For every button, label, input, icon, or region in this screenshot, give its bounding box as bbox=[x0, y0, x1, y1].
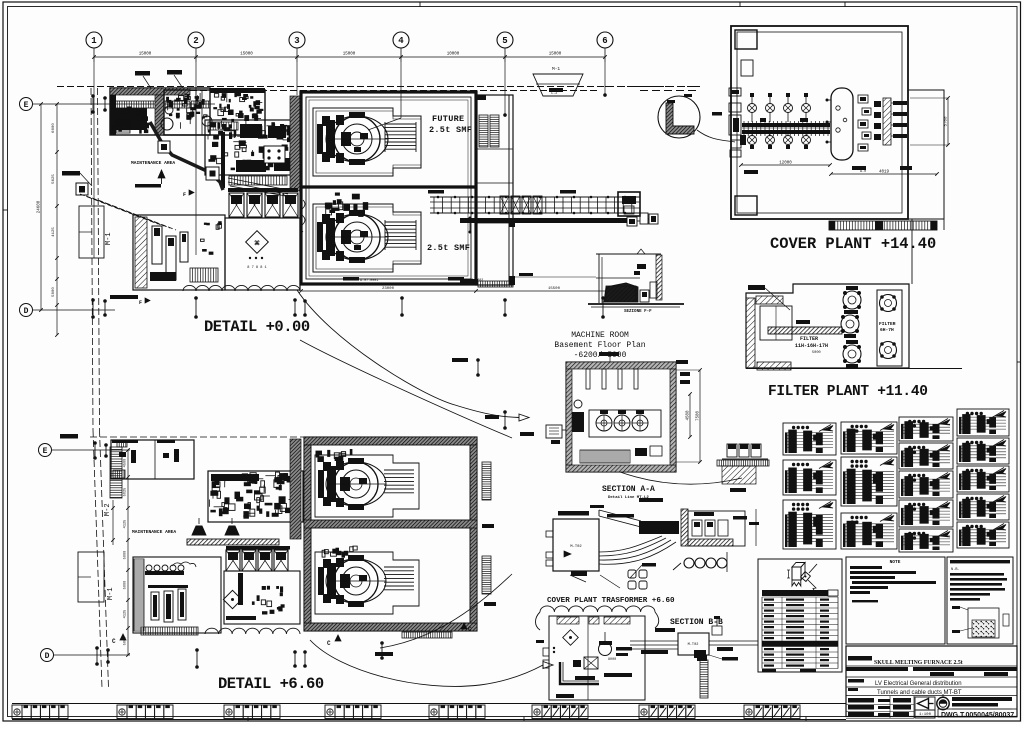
svg-text:FILTER: FILTER bbox=[800, 336, 818, 342]
cover plant tank capsule bbox=[831, 88, 853, 160]
conveyor small flags bbox=[428, 190, 444, 194]
row line E bbox=[33, 103, 215, 105]
plan DETAIL +0.00 boundary dashed line bbox=[57, 86, 700, 88]
title block logo arrow bbox=[915, 697, 935, 710]
section B-B label small bbox=[722, 657, 738, 661]
svg-text:4: 4 bbox=[398, 36, 404, 46]
central hall texture bbox=[282, 130, 286, 135]
conduit panel title bbox=[950, 560, 1010, 563]
lower dumbbells D row bbox=[96, 648, 98, 664]
cover plant corner square bottom-left bbox=[735, 196, 757, 215]
filter plant right room bbox=[877, 290, 902, 366]
grid line 1 vertical bbox=[93, 62, 95, 258]
transformer building bbox=[549, 616, 645, 700]
svg-text:COVER PLANT TRASFORMER +6.60: COVER PLANT TRASFORMER +6.60 bbox=[547, 597, 675, 605]
lower furnace machinery 1 bbox=[339, 453, 346, 456]
schedule blocks column 3 bbox=[899, 417, 953, 441]
cover plant left machinery column bbox=[729, 88, 741, 96]
lower dim line 2 bbox=[112, 500, 114, 545]
svg-text:4125: 4125 bbox=[124, 610, 128, 619]
lower plan dashed top boundary bbox=[90, 436, 310, 438]
lower-left pump circle row bbox=[145, 571, 184, 575]
lower central machinery bbox=[208, 471, 303, 522]
room block A comb band bbox=[110, 101, 210, 108]
section A-A duct squares bbox=[628, 570, 636, 578]
section A-A platform slope bbox=[599, 510, 641, 521]
svg-text:15000: 15000 bbox=[549, 53, 562, 57]
revision strip group 2 bbox=[117, 705, 127, 719]
filter plant bottom hatch strip bbox=[757, 362, 791, 370]
schedule block B1 bbox=[841, 422, 897, 454]
grid bubble 4 bbox=[393, 32, 409, 48]
detail circle wedge bbox=[666, 103, 694, 134]
room block A hatched column bbox=[155, 95, 164, 135]
svg-text:4500: 4500 bbox=[124, 459, 128, 468]
svg-text:Tunnels and cable ducts MT-BT: Tunnels and cable ducts MT-BT bbox=[877, 690, 962, 696]
section B-B box bbox=[678, 633, 709, 655]
comb above transformer row bbox=[229, 176, 287, 185]
svg-text:M-1: M-1 bbox=[107, 587, 115, 600]
svg-text:10000: 10000 bbox=[447, 53, 460, 57]
machine room platform bbox=[589, 410, 661, 437]
conveyor X boxes bbox=[500, 196, 509, 214]
machine room pumps bbox=[596, 415, 612, 431]
vertical dimension chain bbox=[56, 104, 58, 335]
svg-text:24600: 24600 bbox=[38, 200, 42, 213]
svg-text:DETAIL +6.60: DETAIL +6.60 bbox=[218, 675, 324, 693]
revision strip group 6 bbox=[532, 705, 542, 719]
conveyor ticks bbox=[433, 197, 435, 213]
cover plant pump row 2 bbox=[748, 136, 757, 145]
right wing bottom hatch bbox=[478, 281, 513, 287]
svg-text:FILTER PLANT +11.40: FILTER PLANT +11.40 bbox=[768, 384, 928, 400]
lower plan row bubble E bbox=[39, 444, 52, 457]
sezione F-F generator bbox=[604, 283, 638, 302]
lower row line E bbox=[52, 449, 130, 451]
future furnace platform outline bbox=[313, 108, 421, 176]
svg-text:8000: 8000 bbox=[608, 658, 616, 662]
svg-text:F: F bbox=[183, 192, 186, 198]
svg-text:5: 5 bbox=[502, 36, 507, 46]
lower furnace platform 2 bbox=[315, 552, 419, 614]
filter plant room top-left bbox=[760, 306, 792, 340]
transformer row units bbox=[228, 188, 298, 192]
cable table block bbox=[758, 559, 842, 672]
lower row line D bbox=[53, 654, 130, 656]
svg-text:4125: 4125 bbox=[52, 227, 56, 237]
svg-text:12000: 12000 bbox=[779, 162, 792, 166]
furnace unit F2 bbox=[317, 210, 416, 263]
transformer mid cluster bbox=[584, 657, 598, 669]
svg-text:D: D bbox=[45, 652, 50, 661]
cover plant manifold bars bbox=[742, 123, 830, 127]
section A-A black slab bbox=[639, 521, 679, 534]
central hall vertical black bar bbox=[221, 132, 225, 188]
svg-text:M-1: M-1 bbox=[552, 66, 560, 72]
svg-text:4500: 4500 bbox=[687, 410, 691, 421]
transformer pipe bbox=[560, 662, 599, 684]
lower dumbbells E row bbox=[94, 443, 96, 458]
svg-text:FUTURE: FUTURE bbox=[432, 114, 464, 124]
svg-text:D: D bbox=[24, 307, 29, 316]
dumbbell markers row E bbox=[92, 96, 94, 112]
svg-text:C: C bbox=[112, 638, 116, 645]
conveyor rails bbox=[430, 196, 640, 198]
svg-text:FILTER: FILTER bbox=[879, 321, 896, 327]
svg-text:C-2: C-2 bbox=[551, 92, 557, 96]
F section marker bottom bbox=[110, 295, 138, 299]
lower dim chain bbox=[127, 450, 129, 655]
title block row SKULL MELTING FURNACE bbox=[848, 656, 872, 661]
conveyor lower black bar bbox=[460, 218, 627, 223]
label flags above rooms bbox=[135, 71, 150, 76]
row bubble D bbox=[20, 304, 33, 317]
svg-text:5625: 5625 bbox=[52, 174, 56, 184]
lower-left rooms interior bbox=[151, 592, 159, 620]
machine room flags top bbox=[599, 352, 619, 356]
room block A walls bbox=[110, 88, 210, 135]
svg-text:M-1: M-1 bbox=[105, 232, 113, 245]
svg-text:M-T02: M-T02 bbox=[570, 545, 582, 549]
svg-text:SECTION A-A: SECTION A-A bbox=[602, 485, 655, 494]
grid line 6 vertical bbox=[604, 62, 606, 97]
section A-A cable circles bbox=[673, 563, 681, 570]
lower furnace hall inner rects bbox=[311, 445, 470, 520]
F section marker top bbox=[135, 184, 161, 188]
left building outline bbox=[79, 206, 104, 258]
schedule block B3 bbox=[841, 513, 897, 549]
trapezoid M-1 crossing bbox=[533, 74, 583, 96]
room block A stairs bbox=[116, 120, 130, 133]
lower wall hatch bar bbox=[187, 539, 279, 545]
lower cloud edge bbox=[205, 628, 300, 634]
vertical dimension line E-D bbox=[40, 104, 42, 310]
lower machinery pump icons bbox=[192, 526, 206, 535]
transformer left tabs bbox=[543, 648, 549, 656]
cover plant manifold ticks bbox=[743, 121, 745, 136]
room block A interior bbox=[113, 108, 147, 130]
leader curve to transformer plant bbox=[310, 640, 543, 686]
svg-text:8 7 8 8 1: 8 7 8 8 1 bbox=[247, 266, 266, 270]
machine room outside box left bbox=[546, 425, 562, 438]
revision strip group 4 bbox=[325, 705, 335, 719]
lower-left rooms block bbox=[133, 215, 225, 290]
transformer leader dots bbox=[553, 647, 555, 649]
svg-text:A-0: A-0 bbox=[860, 170, 866, 174]
switch room with diamond bbox=[225, 218, 300, 290]
svg-text:E: E bbox=[43, 447, 48, 456]
grid line 5 vertical bbox=[504, 62, 506, 117]
section A-A right small bars bbox=[733, 516, 747, 520]
detail circle labels bbox=[684, 94, 692, 97]
svg-text:6H-7H: 6H-7H bbox=[880, 327, 894, 333]
dimension line below furnace hall bbox=[301, 290, 632, 292]
svg-text:15000: 15000 bbox=[240, 53, 253, 57]
diagonal ramp lines bbox=[228, 178, 288, 190]
cover plant corner square top-left bbox=[735, 30, 757, 49]
row bubble E bbox=[20, 98, 33, 111]
svg-text:MACHINE ROOM: MACHINE ROOM bbox=[571, 331, 629, 340]
filter plant left hatch strip bbox=[746, 298, 755, 368]
svg-text:6: 6 bbox=[602, 36, 607, 46]
right wing walls bbox=[476, 95, 513, 285]
svg-text:6000: 6000 bbox=[52, 123, 56, 133]
sezione F-F walls bbox=[598, 254, 600, 303]
left small panel symbol bbox=[76, 183, 88, 195]
curved road arc upper bbox=[300, 340, 512, 438]
svg-text:M-2: M-2 bbox=[104, 503, 112, 516]
svg-text:1:100: 1:100 bbox=[919, 713, 932, 717]
cover plant outer wall bbox=[731, 26, 908, 219]
lower transformer row bbox=[226, 546, 290, 550]
lower-left rooms ladder strip bbox=[134, 559, 144, 631]
walkway box 1 bbox=[158, 141, 170, 153]
walkway box 2 bbox=[206, 167, 219, 180]
note text bars bbox=[850, 566, 882, 569]
title block drawing number bbox=[938, 709, 1017, 717]
svg-text:⌘: ⌘ bbox=[254, 240, 260, 247]
title block middle bars bbox=[893, 698, 911, 703]
schedule block A1 bbox=[783, 423, 836, 455]
svg-text:DWG.T.0050045/80037: DWG.T.0050045/80037 bbox=[941, 712, 1014, 719]
furnace unit F1 (future) bbox=[317, 112, 416, 165]
schedule block A3 bbox=[783, 500, 836, 549]
lower switch room bbox=[224, 571, 300, 624]
svg-text:SEZIONE F-F: SEZIONE F-F bbox=[624, 310, 652, 314]
svg-text:E: E bbox=[24, 101, 29, 110]
leader curve to machine room bbox=[297, 290, 519, 418]
filter plant top hatch strip bbox=[756, 296, 783, 304]
revision strip group 8 bbox=[744, 705, 754, 719]
svg-text:4019: 4019 bbox=[879, 171, 890, 175]
sezione F-F base bbox=[588, 303, 684, 305]
machine room walls bbox=[566, 362, 676, 472]
svg-text:7500: 7500 bbox=[697, 410, 701, 421]
row line D bbox=[33, 309, 115, 311]
svg-text:MAINTENANCE AREA: MAINTENANCE AREA bbox=[132, 529, 176, 535]
lower left flag bbox=[60, 434, 78, 439]
revision strip group 7 bbox=[639, 705, 649, 719]
svg-text:15000: 15000 bbox=[343, 53, 356, 57]
cable table footer rows bbox=[762, 669, 776, 672]
grid bubble 6 bbox=[597, 32, 613, 48]
svg-text:M-T02: M-T02 bbox=[688, 643, 699, 647]
diagonal road hatch bbox=[80, 194, 158, 224]
title block outer bbox=[846, 646, 1017, 717]
conduit diagram bbox=[968, 608, 999, 638]
svg-text:5625: 5625 bbox=[124, 488, 128, 497]
transformer vents bbox=[557, 617, 579, 624]
room block B bbox=[164, 90, 265, 135]
grid bubble 3 bbox=[289, 32, 305, 48]
lower plan row bubble D bbox=[41, 649, 54, 662]
lower right ladder bbox=[482, 462, 491, 500]
machinery cluster furnace hall 2 bbox=[337, 199, 342, 204]
curved road arc lower bbox=[380, 574, 512, 648]
svg-text:5000: 5000 bbox=[124, 551, 128, 560]
svg-text:MAINTENANCE AREA: MAINTENANCE AREA bbox=[131, 160, 175, 166]
revision strip group 1 bbox=[12, 705, 22, 719]
title block logo circle bbox=[937, 697, 949, 709]
svg-text:C: C bbox=[327, 640, 331, 647]
lower bottom comb bbox=[402, 632, 452, 638]
title block right bars bbox=[952, 697, 1012, 701]
cover plant bottom hatch bar bbox=[829, 221, 937, 230]
conveyor motor units bbox=[627, 217, 637, 226]
cover plant mid boxes bbox=[858, 95, 868, 103]
lower furnace machinery 2 bbox=[322, 550, 325, 557]
room block B circles bbox=[161, 118, 173, 130]
lower left building outline bbox=[78, 552, 104, 602]
cover plant small flags bbox=[744, 170, 758, 174]
svg-text:Basement Floor Plan: Basement Floor Plan bbox=[554, 341, 645, 350]
svg-text:1: 1 bbox=[91, 36, 97, 46]
grid bubble 5 bbox=[497, 32, 513, 48]
conduit panel text lines bbox=[950, 573, 1004, 576]
revision strip group 3 bbox=[224, 705, 234, 719]
cover plant pump row 1 bbox=[748, 104, 757, 113]
furnace unit F2 platform bbox=[313, 204, 421, 272]
grid bubble 2 bbox=[188, 32, 204, 48]
grid line 2 vertical bbox=[195, 62, 197, 255]
title block bottom-left bars bbox=[848, 698, 874, 703]
schedule blocks column 4 bbox=[957, 409, 1009, 436]
grid line 4 vertical bbox=[400, 62, 402, 118]
lower rooms top-left bbox=[111, 440, 194, 479]
detail circle leader bbox=[697, 130, 735, 142]
right wing room divider bbox=[476, 148, 513, 150]
lower left stairs ladder bbox=[110, 447, 122, 498]
sezione F-F level line bbox=[514, 276, 596, 278]
svg-text:2: 2 bbox=[193, 36, 198, 46]
bottom revision strip band bbox=[12, 703, 846, 705]
furnace hall small labels bbox=[343, 277, 359, 281]
lower plan flags top bbox=[485, 415, 499, 419]
section A-A top flags bbox=[558, 511, 589, 516]
grid bubble 1 bbox=[86, 32, 102, 48]
conduit panel bbox=[947, 557, 1013, 644]
lower furnace divider bbox=[304, 520, 477, 528]
lower furnace unit 2 bbox=[318, 555, 414, 607]
border tick marks bbox=[419, 2, 421, 7]
filter unit row (11H-16H-17H) bbox=[843, 291, 861, 309]
leader line from grid 4 bbox=[368, 118, 401, 130]
section A-A hatch strip bbox=[681, 509, 688, 546]
wavy left edge marks bbox=[301, 200, 305, 232]
machine room bottom comb bbox=[580, 450, 630, 463]
machine room columns bbox=[586, 369, 590, 389]
svg-text:5000: 5000 bbox=[52, 287, 56, 297]
svg-text:A-07.0001: A-07.0001 bbox=[360, 279, 378, 283]
machine room small items bbox=[635, 448, 647, 456]
svg-text:NOTE: NOTE bbox=[890, 559, 901, 565]
svg-text:SKULL MELTING FURNACE 2.5t: SKULL MELTING FURNACE 2.5t bbox=[874, 660, 963, 666]
furnace hall divider wall bbox=[301, 185, 476, 188]
transformer diamond bbox=[563, 630, 579, 646]
transformer cloud outline bbox=[540, 606, 655, 612]
svg-text:LV Electrical General distribu: LV Electrical General distribution bbox=[875, 681, 962, 687]
machine room leader to duct detail bbox=[620, 472, 742, 484]
machine room dim right bbox=[699, 370, 701, 462]
section B-B left bars bbox=[655, 628, 675, 632]
grid line 3 vertical bbox=[296, 62, 298, 95]
section B-B vertical duct bbox=[700, 660, 708, 698]
svg-text:2.5t SMF: 2.5t SMF bbox=[429, 125, 472, 135]
section A-A transformer box M-T02 bbox=[553, 519, 599, 571]
section A-A right assembly bbox=[694, 512, 714, 516]
detail circle bbox=[658, 96, 700, 138]
svg-text:15000: 15000 bbox=[139, 53, 152, 57]
transformer unit bbox=[599, 643, 612, 656]
sezione F-F interior boxes bbox=[637, 264, 646, 269]
schedule block A2 bbox=[783, 460, 836, 495]
transformer bottom bars bbox=[575, 676, 595, 680]
lower right flags bbox=[452, 358, 468, 362]
cable table 3D box icon bbox=[792, 567, 801, 580]
central hall dotted box bbox=[264, 146, 285, 163]
svg-text:F: F bbox=[139, 300, 142, 306]
cover plant dimensions bbox=[741, 164, 830, 166]
cover plant small room top bbox=[741, 60, 753, 76]
cable table grid bbox=[762, 596, 838, 598]
grid dimension line top bbox=[94, 56, 605, 58]
conveyor head unit bbox=[618, 192, 640, 216]
note panel bbox=[846, 557, 945, 644]
svg-text:DETAIL +0.00: DETAIL +0.00 bbox=[204, 318, 310, 336]
furnace hall outer walls bbox=[301, 92, 476, 284]
svg-text:N.B.: N.B. bbox=[951, 568, 960, 572]
title block subtitle 1 bbox=[848, 679, 864, 683]
dashes right of trapezoid bbox=[605, 86, 700, 88]
central hall outline bbox=[205, 120, 300, 175]
lower road dashed verticals bbox=[93, 430, 102, 688]
svg-text:2.5t SMF: 2.5t SMF bbox=[427, 243, 470, 253]
lower bottom comb strip bbox=[141, 627, 198, 635]
svg-text:11H-16H-17H: 11H-16H-17H bbox=[795, 343, 828, 349]
duct boxes detail bbox=[727, 444, 737, 457]
revision strip group 5 bbox=[429, 705, 439, 719]
section B-B right side bbox=[709, 640, 758, 642]
lower furnace unit 1 bbox=[318, 458, 414, 510]
svg-text:5000: 5000 bbox=[812, 351, 821, 355]
lower bottom dumbbells bbox=[196, 650, 198, 667]
section A-A cable label bbox=[642, 563, 656, 567]
right wing black bits bbox=[509, 218, 515, 227]
svg-text:4125: 4125 bbox=[124, 520, 128, 529]
title block subtitle 2 bbox=[848, 688, 858, 691]
lower furnace platform 1 bbox=[315, 455, 419, 517]
room B door lines bbox=[195, 90, 197, 135]
sezione F-F roof bbox=[596, 253, 661, 255]
lower hatch band left of furnace hall bbox=[290, 439, 301, 539]
machine room left pump cluster bbox=[572, 412, 584, 432]
lower-left small cloud bbox=[172, 562, 196, 567]
lower-left rooms bbox=[133, 557, 221, 633]
cover plant right extension bbox=[908, 90, 944, 219]
svg-text:3: 3 bbox=[294, 36, 299, 46]
svg-text:5700: 5700 bbox=[945, 116, 949, 127]
cover plant right manifold bbox=[883, 98, 891, 145]
section A-A cables bbox=[599, 536, 662, 552]
filter plant wall bar bbox=[768, 327, 842, 334]
lower furnace hall walls hatched bbox=[304, 437, 477, 631]
svg-text:5000: 5000 bbox=[124, 581, 128, 590]
filter plant base line bbox=[746, 368, 962, 370]
title block redaction bars bbox=[846, 667, 908, 671]
walkway corridor bbox=[150, 122, 223, 190]
schedule block B2 bbox=[841, 457, 897, 506]
dumbbell markers row D bbox=[92, 300, 94, 317]
